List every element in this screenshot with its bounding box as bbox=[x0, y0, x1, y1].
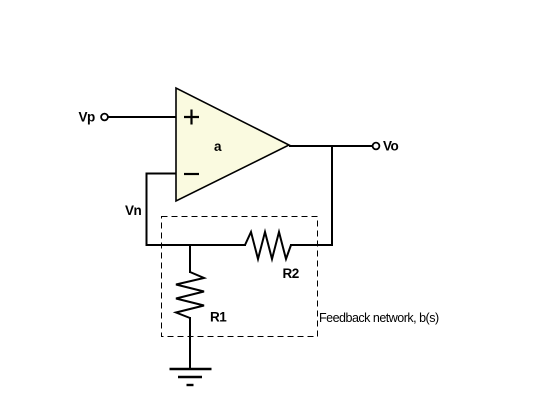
resistor R2 bbox=[245, 232, 291, 259]
svg-text:a: a bbox=[214, 139, 222, 154]
resistor R1 bbox=[176, 272, 204, 318]
wire feedback horizontal left segment bbox=[146, 244, 247, 246]
svg-text:Vp: Vp bbox=[79, 110, 96, 125]
svg-text:Vn: Vn bbox=[125, 203, 142, 218]
wire R1 bottom lead to ground bbox=[189, 317, 191, 369]
wire feedback vertical from output node bbox=[331, 145, 333, 246]
op-amp noninverting input plus symbol bbox=[184, 110, 199, 125]
svg-text:R2: R2 bbox=[283, 266, 299, 281]
ground bbox=[170, 369, 212, 385]
wire op-amp output to Vo terminal bbox=[289, 145, 372, 147]
terminal Vo (open circle) bbox=[373, 143, 380, 150]
op-amp U1 (gain a) triangle bbox=[176, 88, 289, 201]
terminal Vp (open circle) bbox=[101, 114, 108, 121]
wire inverting input to Vn corner bbox=[147, 174, 177, 247]
svg-text:Feedback network, b(s): Feedback network, b(s) bbox=[319, 311, 439, 325]
feedback network dashed box b(s) bbox=[162, 217, 318, 337]
wire R1 top lead bbox=[189, 245, 191, 273]
svg-text:Vo: Vo bbox=[383, 139, 399, 154]
svg-text:R1: R1 bbox=[210, 310, 227, 325]
op-amp inverting input minus symbol bbox=[184, 173, 199, 175]
wire Vp terminal to op-amp noninverting input bbox=[108, 116, 176, 118]
wire feedback horizontal right segment bbox=[290, 244, 333, 246]
